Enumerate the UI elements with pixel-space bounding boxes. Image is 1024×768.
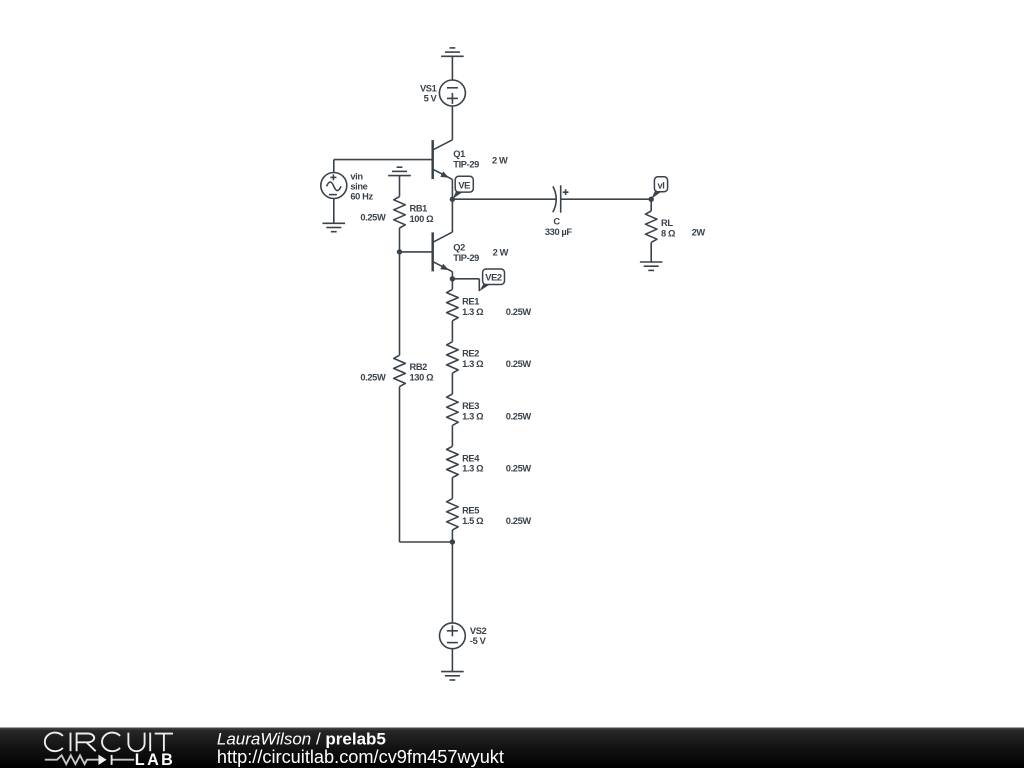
node vl: [649, 197, 654, 202]
resistor RE4: [447, 446, 459, 477]
capacitor C: [553, 185, 569, 212]
resistor RB1: [394, 197, 406, 228]
flag vl: [651, 177, 667, 199]
svg-text:RB1: RB1: [410, 204, 428, 214]
label vin sine 60 Hz: [350, 172, 373, 202]
svg-text:0.25W: 0.25W: [506, 516, 532, 526]
label RE3 0.25W: [506, 411, 532, 421]
resistor RE1: [447, 289, 459, 320]
svg-text:RE2: RE2: [462, 349, 479, 359]
svg-text:0.25W: 0.25W: [506, 359, 532, 369]
wire: [451, 530, 453, 542]
wire: [650, 199, 652, 211]
svg-text:sine: sine: [350, 182, 367, 192]
svg-text:RE4: RE4: [462, 453, 480, 463]
label RE4 0.25W: [506, 464, 532, 474]
logo LAB wordmark: [135, 751, 175, 768]
label RE3 1.3 &#937;: [462, 401, 484, 421]
svg-text:2W: 2W: [692, 228, 706, 238]
label RB1 0.25W: [360, 213, 386, 223]
wire: [650, 242, 652, 262]
label VS2 -5 V: [470, 626, 487, 646]
label Q2 TIP-29: [453, 243, 479, 263]
svg-text:100 Ω: 100 Ω: [410, 214, 435, 224]
label Q2 2 W: [493, 248, 509, 258]
wire: [399, 228, 401, 252]
svg-text:-5 V: -5 V: [470, 636, 487, 646]
flag VE: [453, 176, 474, 199]
resistor RE3: [447, 394, 459, 425]
transistor Q2: [433, 232, 453, 272]
svg-text:http://circuitlab.com/cv9fm457: http://circuitlab.com/cv9fm457wyukt: [217, 747, 504, 767]
label RE4 1.3 &#937;: [462, 453, 484, 473]
svg-text:RE1: RE1: [462, 296, 479, 306]
svg-text:LauraWilson / prelab5: LauraWilson / prelab5: [217, 729, 386, 748]
wire: [451, 272, 453, 279]
label Q1 TIP-29: [453, 149, 479, 169]
svg-text:2 W: 2 W: [493, 248, 509, 258]
voltage source vin: [321, 173, 347, 199]
wire: [561, 198, 652, 200]
logo resistor-diode symbol: [45, 755, 134, 765]
wire: [451, 542, 453, 623]
svg-text:1.3 Ω: 1.3 Ω: [462, 307, 484, 317]
wire: [451, 425, 453, 446]
wire: [451, 321, 453, 342]
svg-text:vl: vl: [658, 180, 665, 190]
label RB1 100 &#937;: [410, 204, 435, 224]
label RB2 0.25W: [360, 373, 386, 383]
label RE1 0.25W: [506, 307, 532, 317]
wire: [399, 252, 401, 355]
svg-text:130 Ω: 130 Ω: [410, 373, 435, 383]
ground (RB1 top): [388, 167, 411, 175]
svg-text:TIP-29: TIP-29: [453, 159, 479, 169]
resistor RE2: [447, 342, 459, 373]
wire: [334, 160, 432, 173]
svg-text:RB2: RB2: [410, 362, 428, 372]
svg-text:0.25W: 0.25W: [360, 213, 386, 223]
voltage source VS2: [440, 623, 466, 649]
svg-text:vin: vin: [350, 172, 363, 182]
svg-text:0.25W: 0.25W: [506, 307, 532, 317]
svg-text:0.25W: 0.25W: [506, 411, 532, 421]
node VE2: [450, 276, 455, 281]
label C 330 &#181;F: [545, 216, 573, 237]
svg-text:RL: RL: [661, 218, 673, 228]
label VS1 5 V: [420, 83, 438, 103]
wire: [451, 649, 453, 672]
node VE: [450, 197, 455, 202]
label RB2 130 &#937;: [410, 362, 435, 382]
label RE5 0.25W: [506, 516, 532, 526]
svg-text:1.3 Ω: 1.3 Ω: [462, 411, 484, 421]
svg-text:RE3: RE3: [462, 401, 479, 411]
node (RB1/RB2/Q2 base junction): [397, 249, 402, 254]
svg-text:5 V: 5 V: [424, 93, 438, 103]
svg-text:VE2: VE2: [485, 273, 502, 283]
svg-text:330 µF: 330 µF: [545, 227, 573, 237]
voltage source VS1: [439, 80, 465, 106]
label RL 8 &#937;: [661, 218, 676, 238]
svg-text:TIP-29: TIP-29: [453, 253, 479, 263]
label RE5 1.5 &#937;: [462, 506, 484, 526]
wire: [400, 387, 453, 542]
label Q1 2 W: [492, 156, 508, 166]
svg-text:VE: VE: [458, 180, 470, 190]
label RE1 1.3 &#937;: [462, 296, 484, 316]
resistor RB2: [394, 355, 406, 386]
svg-text:8 Ω: 8 Ω: [661, 228, 676, 238]
node (emitter string / RB2 / VS2 junction): [450, 539, 455, 544]
svg-text:Q2: Q2: [453, 243, 465, 253]
ground (RL): [640, 262, 663, 270]
svg-text:RE5: RE5: [462, 506, 479, 516]
resistor RL: [645, 211, 657, 242]
flag VE2: [479, 269, 504, 291]
wire: [451, 56, 453, 80]
wire: [452, 198, 556, 200]
svg-text:VS1: VS1: [420, 83, 437, 93]
label RE2 0.25W: [506, 359, 532, 369]
label RE2 1.3 &#937;: [462, 349, 484, 369]
wire: [399, 176, 401, 197]
wire: [451, 478, 453, 499]
resistor RE5: [447, 499, 459, 530]
svg-text:0.25W: 0.25W: [360, 373, 386, 383]
wire: [400, 251, 432, 253]
svg-text:60 Hz: 60 Hz: [350, 192, 373, 202]
ground (vin): [323, 223, 346, 231]
svg-text:2 W: 2 W: [492, 156, 508, 166]
ground (VS2): [441, 672, 464, 680]
wire: [451, 179, 453, 199]
svg-text:0.25W: 0.25W: [506, 464, 532, 474]
wire: [451, 279, 453, 290]
svg-text:1.3 Ω: 1.3 Ω: [462, 359, 484, 369]
svg-text:Q1: Q1: [453, 149, 465, 159]
wire: [451, 373, 453, 394]
svg-text:VS2: VS2: [470, 626, 487, 636]
svg-text:1.5 Ω: 1.5 Ω: [462, 516, 484, 526]
logo CIRCUIT wordmark (drawn): [45, 733, 173, 752]
wire: [333, 199, 335, 224]
footer title LauraWilson / prelab5: [217, 729, 386, 748]
svg-text:LAB: LAB: [135, 751, 175, 768]
footer url: [217, 747, 504, 767]
wire: [452, 279, 479, 291]
footer watermark bar: [0, 728, 1024, 768]
label RL 2W: [692, 228, 706, 238]
wire: [451, 199, 453, 232]
ground (top supply): [441, 48, 464, 56]
svg-text:C: C: [553, 216, 560, 226]
transistor Q1: [433, 140, 453, 180]
wire: [451, 106, 453, 140]
svg-text:1.3 Ω: 1.3 Ω: [462, 464, 484, 474]
